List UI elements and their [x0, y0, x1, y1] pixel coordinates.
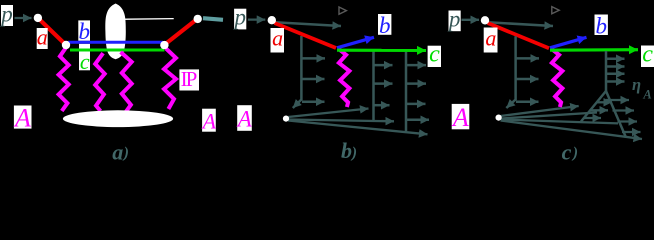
node bottom (panel b)	[283, 116, 289, 122]
remnant arrow 3 (panel c)	[516, 101, 539, 104]
svg-text:c: c	[642, 42, 653, 68]
Y comb arrow 4 (panel c)	[606, 80, 625, 83]
node vertex 2 (panel a)	[62, 41, 70, 49]
pomeron zigzag 4 (panel a)	[164, 49, 176, 110]
svg-text:): )	[122, 144, 129, 161]
pomeron zigzag (panel b)	[338, 49, 349, 108]
pomeron zigzag 1 (panel a)	[59, 48, 69, 112]
svg-text:a: a	[485, 26, 496, 51]
right leg arrow 4 (panel c)	[622, 131, 641, 133]
Y left leg (panel c)	[581, 91, 606, 122]
blue b arrow (panel b)	[337, 37, 374, 48]
svg-text:a: a	[37, 25, 48, 50]
label a (panel b)	[271, 26, 285, 53]
remnant vertical line (panel b)	[293, 36, 302, 108]
node vertex 4 (panel a)	[194, 15, 202, 23]
svg-text:A: A	[201, 109, 217, 134]
comb B arrow 2 (panel b)	[406, 82, 426, 85]
wire blue b-line (panel a)	[68, 41, 163, 44]
top spectator arrow (panel c)	[488, 22, 553, 26]
Y comb arrow 1 (panel c)	[606, 57, 625, 60]
comb B arrow 3 (panel b)	[406, 103, 426, 106]
top spectator arrow (panel b)	[275, 22, 341, 26]
label A (panel c)	[451, 103, 469, 132]
Y right leg (panel c)	[606, 91, 626, 138]
label p (panel c)	[447, 7, 461, 32]
comb A vertical (panel b)	[372, 51, 375, 122]
floating open arrowhead (panel c)	[552, 7, 559, 14]
svg-text:c: c	[429, 42, 440, 68]
green c arrow (panel b)	[337, 49, 426, 52]
comb A arrow 3 (panel b)	[374, 104, 390, 107]
red line a (panel b)	[275, 23, 337, 48]
pomeron zigzag 3 (panel a)	[121, 52, 132, 112]
svg-text:p: p	[232, 5, 246, 30]
incoming proton arrow (panel a)	[15, 17, 32, 19]
pomeron zigzag (panel c)	[551, 49, 562, 108]
svg-text:A: A	[13, 104, 31, 133]
label p (panel b)	[232, 5, 246, 30]
fan line 1 (panel b)	[288, 109, 369, 118]
label A right (panel a)	[201, 109, 217, 134]
wire white thin line (panel a)	[120, 18, 174, 21]
svg-text:): )	[571, 144, 578, 161]
svg-text:η: η	[632, 75, 641, 94]
left leg arrow 3 (panel c)	[584, 117, 601, 119]
fan line 3 (panel b)	[288, 121, 428, 135]
red line a (panel a)	[40, 20, 67, 46]
label c (panel c)	[641, 42, 654, 68]
label c box (panel a)	[79, 44, 90, 71]
comb B arrow 1 (panel b)	[406, 64, 426, 67]
svg-text:p: p	[0, 2, 13, 27]
label eta_A (panel c)	[632, 75, 652, 102]
label p (panel a)	[0, 2, 13, 27]
node vertex 1 (panel a)	[34, 14, 42, 22]
incoming proton arrow (panel b)	[248, 18, 265, 20]
label IP pomeron (panel a)	[179, 67, 199, 91]
svg-text:b: b	[341, 138, 352, 163]
fan line 2 (panel c)	[501, 113, 597, 119]
comb A arrow 2 (panel b)	[374, 82, 393, 85]
red line a (panel c)	[488, 23, 549, 48]
pomeron zigzag 2 (panel a)	[95, 53, 105, 111]
fan line 4 (panel c)	[501, 121, 643, 140]
left leg arrow 1 (panel c)	[597, 101, 612, 103]
svg-text:A: A	[451, 103, 469, 132]
label c (panel b)	[428, 42, 441, 68]
svg-text:A: A	[642, 88, 651, 102]
label A (panel b)	[236, 105, 253, 131]
svg-text:b: b	[78, 19, 90, 44]
comb B arrow 4 (panel b)	[406, 119, 429, 122]
floating open arrowhead (panel b)	[339, 7, 346, 14]
label b (panel c)	[595, 14, 608, 39]
right leg arrow 1 (panel c)	[606, 99, 629, 101]
comb A arrow 1 (panel b)	[374, 64, 393, 67]
fan line 2 (panel b)	[289, 120, 395, 122]
svg-text:c: c	[562, 139, 572, 164]
fan line 1 (panel c)	[501, 106, 579, 116]
svg-text:c: c	[80, 49, 90, 74]
left leg arrow 2 (panel c)	[590, 109, 608, 111]
green c arrow (panel c)	[550, 48, 638, 52]
wire green c-line (panel a)	[70, 49, 164, 52]
Y string vertical (panel c)	[605, 51, 608, 91]
remnant arrow 1 (panel c)	[516, 57, 539, 60]
svg-text:p: p	[447, 7, 461, 32]
remnant arrow 2 (panel b)	[301, 78, 324, 81]
red line right (panel a)	[166, 20, 197, 44]
label b (panel b)	[378, 13, 391, 38]
remnant arrow 2 (panel c)	[516, 78, 539, 81]
node vertex 1 (panel b)	[268, 16, 276, 24]
svg-text:a: a	[272, 26, 283, 51]
svg-text:): )	[350, 144, 357, 161]
nucleus ellipse (panel a)	[63, 110, 173, 127]
right leg arrow 3 (panel c)	[618, 120, 638, 122]
label A left (panel a)	[13, 104, 31, 133]
Y comb arrow 2 (panel c)	[606, 65, 625, 68]
svg-text:a: a	[112, 139, 123, 164]
Y comb arrow 3 (panel c)	[606, 73, 625, 76]
label b box (panel a)	[78, 20, 90, 40]
comb B vertical (panel b)	[405, 51, 408, 132]
svg-text:A: A	[236, 107, 253, 132]
remnant arrow 1 (panel b)	[301, 57, 325, 60]
svg-text:b: b	[596, 14, 608, 39]
remnant vertical line (panel c)	[506, 36, 515, 108]
label a (panel c)	[484, 26, 498, 53]
node vertex 3 (panel a)	[160, 41, 168, 49]
node vertex 1 (panel c)	[481, 16, 489, 24]
fan line 3 (panel c)	[501, 120, 618, 124]
svg-text:IP: IP	[181, 67, 197, 91]
blob ellipse (panel a)	[105, 4, 125, 60]
label a (panel a)	[37, 25, 48, 50]
outgoing proton teal line (panel a)	[203, 18, 223, 20]
node bottom (panel c)	[496, 115, 502, 121]
blue b arrow (panel c)	[550, 37, 587, 48]
remnant arrow 3 (panel b)	[302, 101, 325, 104]
svg-text:b: b	[379, 13, 391, 38]
incoming proton arrow (panel c)	[462, 19, 480, 21]
right leg arrow 2 (panel c)	[613, 109, 635, 111]
